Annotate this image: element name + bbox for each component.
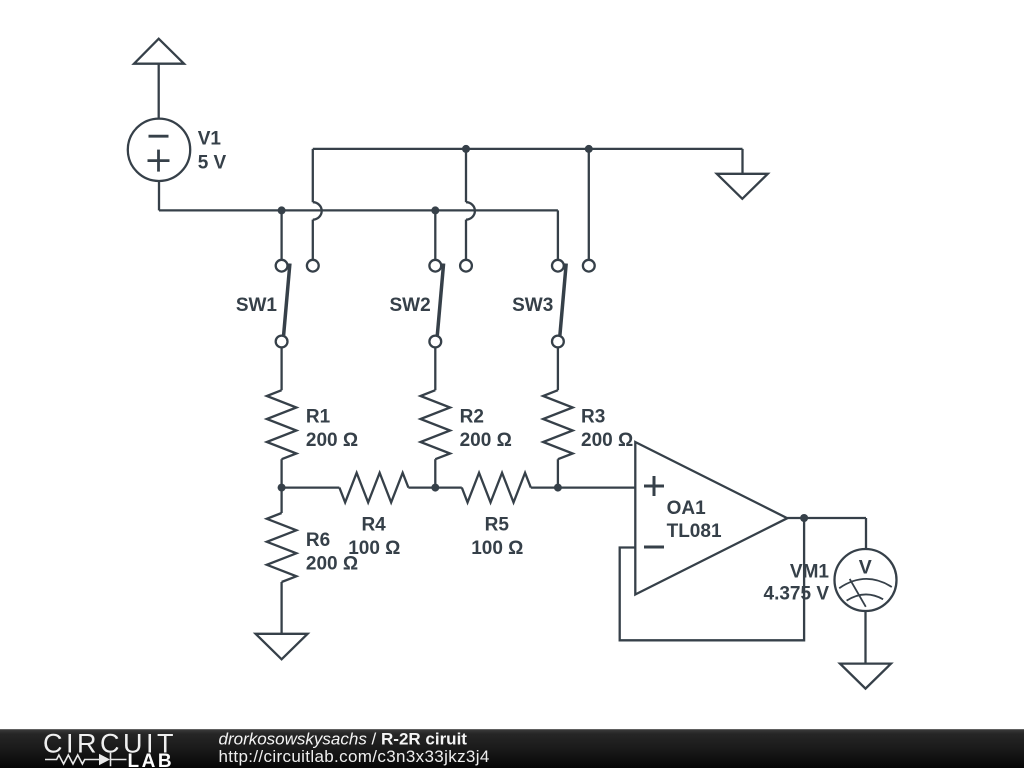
label OA1 TL081 — [667, 498, 722, 542]
node junction on lower bus at SW2 — [431, 206, 439, 214]
svg-text:100 Ω: 100 Ω — [471, 538, 523, 559]
svg-text:SW1: SW1 — [236, 295, 278, 316]
svg-text:SW2: SW2 — [390, 295, 431, 316]
svg-text:4.375 V: 4.375 V — [764, 584, 830, 605]
voltage source V1 — [128, 119, 190, 181]
wire SW3 right stub — [588, 149, 590, 260]
svg-text:drorkosowskysachs / R-2R cirui: drorkosowskysachs / R-2R ciruit — [219, 729, 468, 748]
wire op-amp feedback — [620, 518, 804, 640]
wire output down to voltmeter — [865, 518, 867, 549]
label V1 5 V — [198, 129, 227, 174]
label R6 200 — [306, 530, 358, 575]
svg-text:200 Ω: 200 Ω — [460, 430, 512, 451]
ground bottom left — [256, 634, 308, 660]
wire op-amp output — [787, 517, 866, 519]
node C junction — [554, 484, 562, 492]
svg-text:R2: R2 — [460, 407, 484, 428]
node junction upper bus SW3 — [585, 145, 593, 153]
svg-text:V1: V1 — [198, 129, 222, 150]
svg-text:200 Ω: 200 Ω — [581, 430, 633, 451]
switch SW3 — [552, 260, 595, 348]
svg-text:R4: R4 — [361, 514, 386, 535]
label R4 100 — [348, 514, 400, 559]
wire voltmeter to ground — [864, 611, 866, 664]
op-amp OA1 — [635, 442, 787, 595]
svg-text:R1: R1 — [306, 407, 331, 428]
resistor R1 — [267, 347, 297, 487]
node junction on lower bus at SW1 — [278, 206, 286, 214]
node output junction — [800, 514, 808, 522]
label R2 200 — [460, 407, 512, 452]
voltmeter VM1 — [835, 549, 897, 611]
wire upper bus to ground — [741, 149, 743, 174]
svg-text:R5: R5 — [485, 514, 510, 535]
label VM1 4.375 V — [764, 562, 830, 605]
resistor R5 — [435, 473, 558, 503]
svg-text:TL081: TL081 — [667, 521, 722, 542]
svg-text:SW3: SW3 — [512, 295, 553, 316]
resistor R3 — [543, 347, 573, 487]
wire node3 to op-amp — [558, 486, 635, 488]
svg-text:R3: R3 — [581, 407, 605, 428]
ground bottom right — [840, 664, 891, 689]
label R1 200 — [306, 407, 358, 452]
node junction upper bus SW2 — [462, 145, 470, 153]
wire lower bus — [159, 209, 558, 211]
svg-text:OA1: OA1 — [667, 498, 707, 519]
label R3 200 — [581, 407, 633, 452]
wire upper bus — [313, 148, 743, 150]
svg-text:R6: R6 — [306, 530, 330, 551]
resistor R6 — [267, 488, 297, 634]
ground top right — [717, 174, 768, 199]
wire stub to SW1 left — [280, 210, 282, 260]
wire stub to SW2 left — [434, 210, 436, 260]
svg-text:200 Ω: 200 Ω — [306, 430, 358, 451]
resistor R4 — [282, 473, 436, 503]
svg-text:5 V: 5 V — [198, 152, 227, 173]
logo resistor-diode glyph — [45, 753, 127, 766]
wire V1 bottom — [158, 181, 160, 210]
wire SW2 right stub with hop — [466, 149, 475, 260]
svg-text:200 Ω: 200 Ω — [306, 554, 358, 575]
switch SW2 — [429, 260, 472, 348]
node A junction — [278, 484, 286, 492]
wire lower bus drop to SW3 — [557, 210, 559, 260]
wire V+ to V1 — [158, 64, 160, 119]
resistor R2 — [421, 347, 451, 487]
switch SW1 — [276, 260, 319, 348]
power rail V+ symbol — [134, 39, 184, 64]
svg-text:VM1: VM1 — [790, 562, 830, 583]
svg-text:http://circuitlab.com/c3n3x33j: http://circuitlab.com/c3n3x33jkz3j4 — [219, 747, 490, 766]
node B junction — [431, 484, 439, 492]
svg-text:V: V — [859, 556, 872, 578]
label R5 100 — [471, 514, 523, 559]
wire SW1 right stub with hop — [313, 149, 322, 260]
svg-text:LAB: LAB — [128, 751, 175, 768]
